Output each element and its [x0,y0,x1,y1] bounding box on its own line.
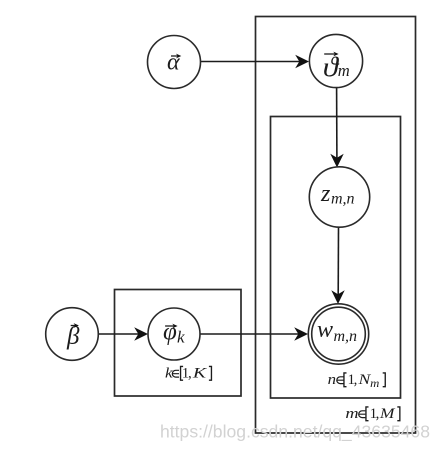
node w_{m,n} (observed, double circle) [308,304,368,364]
label n in [1,N_m] [328,372,386,390]
plate K (k in [1,K]) [115,290,242,397]
svg-text:m: m [345,406,358,422]
wire alpha to theta [201,61,300,63]
wire phi to w [200,333,299,335]
svg-text:n: n [328,372,336,388]
svg-text:z: z [320,181,331,207]
svg-text:m,n: m,n [334,328,358,345]
wire theta to z [336,88,338,158]
svg-text:https://blog.csdn.net/qq_43635: https://blog.csdn.net/qq_43635468 [160,422,430,443]
node z_{m,n} [309,167,369,227]
svg-text:,: , [354,372,358,388]
svg-text:,: , [188,365,192,381]
wire z to w [337,227,339,295]
label m in [1,M] [345,406,399,422]
svg-text:m,n: m,n [331,190,355,207]
wire beta to phi [98,333,138,335]
svg-text:m: m [338,61,350,80]
label k in [1,K] [165,365,211,381]
svg-text:α: α [167,50,180,76]
svg-text:K: K [192,365,208,381]
svg-text:M: M [379,406,397,422]
svg-text:k: k [177,327,185,346]
plate N (inner, n in [1,N_m]) [271,117,401,399]
svg-text:w: w [317,317,333,343]
plate M (outer, m in [1,M]) [256,17,416,434]
node beta [46,308,99,361]
svg-text:m: m [370,378,379,390]
node varphi_k [148,308,200,360]
node vartheta_m [309,34,362,87]
node alpha [148,36,201,89]
svg-text:,: , [376,406,380,422]
svg-text:φ: φ [163,319,177,346]
svg-text:β: β [66,323,80,350]
